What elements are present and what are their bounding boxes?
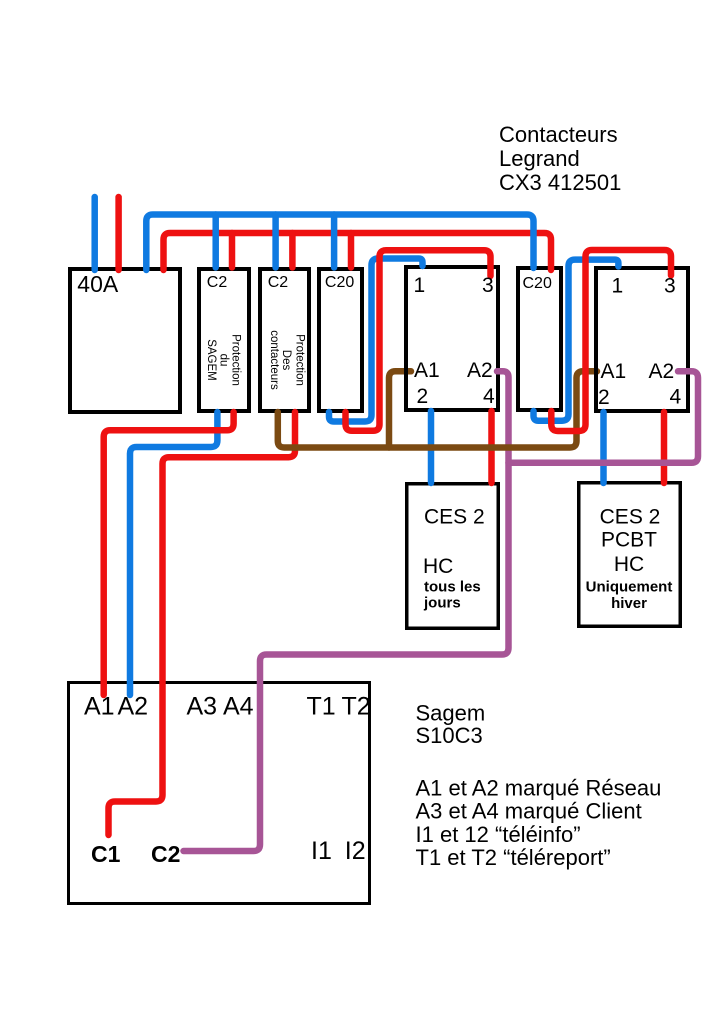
- svg-text:SAGEM: SAGEM: [205, 339, 217, 381]
- svg-text:A1 et A2 marqué Réseau: A1 et A2 marqué Réseau: [416, 776, 662, 801]
- svg-text:Protection: Protection: [229, 334, 241, 386]
- svg-text:Sagem: Sagem: [416, 701, 486, 726]
- svg-text:Legrand: Legrand: [499, 146, 580, 171]
- svg-text:Des: Des: [280, 350, 292, 371]
- svg-text:T1 et T2 “téléreport”: T1 et T2 “téléreport”: [416, 845, 611, 870]
- svg-text:A1: A1: [601, 360, 627, 383]
- svg-text:40A: 40A: [77, 271, 119, 297]
- svg-text:T2: T2: [342, 693, 371, 721]
- svg-text:3: 3: [482, 274, 494, 297]
- svg-text:A1: A1: [414, 359, 440, 382]
- svg-text:contacteurs: contacteurs: [268, 330, 280, 390]
- svg-text:C20: C20: [523, 275, 552, 292]
- svg-text:4: 4: [483, 385, 495, 408]
- svg-text:du: du: [217, 354, 229, 367]
- svg-text:A2: A2: [467, 359, 493, 382]
- svg-text:4: 4: [670, 386, 682, 409]
- svg-text:A2: A2: [649, 360, 675, 383]
- svg-text:1: 1: [414, 274, 426, 297]
- svg-text:CES 2: CES 2: [424, 506, 485, 529]
- svg-text:hiver: hiver: [611, 595, 647, 612]
- svg-text:C2: C2: [268, 274, 289, 291]
- svg-text:3: 3: [664, 275, 676, 298]
- svg-text:2: 2: [417, 385, 429, 408]
- svg-text:A2: A2: [118, 693, 149, 721]
- svg-text:C2: C2: [151, 841, 180, 867]
- svg-text:HC: HC: [614, 553, 644, 576]
- svg-text:C2: C2: [207, 274, 228, 291]
- svg-text:1: 1: [612, 275, 624, 298]
- svg-text:C20: C20: [325, 274, 354, 291]
- svg-text:A3: A3: [187, 693, 218, 721]
- svg-text:HC: HC: [423, 555, 453, 578]
- svg-text:Uniquement: Uniquement: [586, 579, 673, 596]
- svg-text:S10C3: S10C3: [416, 723, 483, 748]
- svg-text:Contacteurs: Contacteurs: [499, 122, 618, 147]
- svg-text:A3 et A4 marqué Client: A3 et A4 marqué Client: [416, 799, 642, 824]
- svg-text:jours: jours: [423, 595, 461, 612]
- svg-text:A4: A4: [223, 693, 254, 721]
- svg-text:I1: I1: [311, 837, 332, 865]
- svg-text:2: 2: [598, 386, 610, 409]
- svg-text:I2: I2: [345, 837, 366, 865]
- svg-text:CX3 412501: CX3 412501: [499, 170, 621, 195]
- svg-text:Protection: Protection: [293, 334, 305, 386]
- svg-text:CES 2: CES 2: [600, 506, 661, 529]
- svg-text:A1: A1: [84, 693, 115, 721]
- svg-text:I1 et 12 “téléinfo”: I1 et 12 “téléinfo”: [416, 822, 581, 847]
- svg-text:T1: T1: [307, 693, 336, 721]
- svg-text:PCBT: PCBT: [601, 529, 657, 552]
- svg-text:C1: C1: [91, 841, 121, 867]
- svg-text:tous les: tous les: [424, 579, 481, 596]
